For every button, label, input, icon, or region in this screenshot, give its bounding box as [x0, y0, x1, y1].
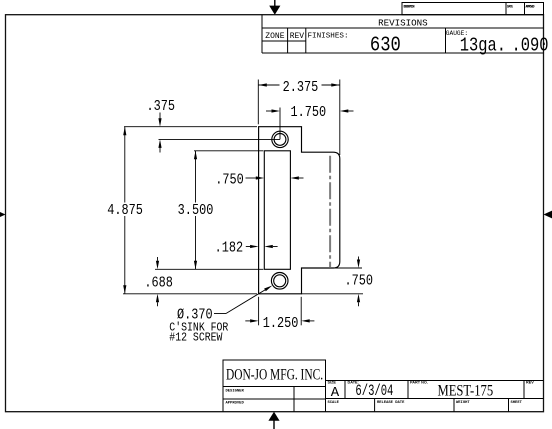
title block: designer/approved rows — [223, 387, 326, 412]
svg-text:.182: .182 — [215, 239, 244, 255]
centering mark right — [544, 210, 552, 218]
centering mark bottom — [268, 412, 279, 429]
hole callout leader — [214, 290, 266, 314]
dimension 1.750 — [266, 108, 354, 140]
part outline — [259, 127, 340, 294]
date cell — [348, 380, 394, 399]
part no cell — [410, 380, 493, 399]
dimension 4.875 — [123, 127, 257, 294]
svg-text:MEST-175: MEST-175 — [437, 382, 493, 400]
dimension 2.375 — [258, 80, 340, 156]
svg-text:630: 630 — [370, 33, 401, 57]
svg-text:4.875: 4.875 — [107, 202, 143, 218]
finishes cell — [308, 33, 401, 57]
revision header strip labels — [404, 5, 535, 9]
dimension .182 — [246, 246, 278, 248]
svg-text:1.750: 1.750 — [290, 104, 326, 120]
title block: company box — [223, 360, 326, 387]
svg-text:APPROVED: APPROVED — [226, 401, 245, 405]
svg-text:ZONE: ZONE — [265, 32, 284, 41]
svg-text:PART NO.: PART NO. — [410, 380, 428, 384]
svg-text:DON-JO MFG. INC.: DON-JO MFG. INC. — [226, 367, 323, 384]
svg-text:REV: REV — [526, 380, 534, 384]
svg-text:DESCRIPTION: DESCRIPTION — [404, 5, 415, 9]
svg-text:WEIGHT: WEIGHT — [456, 401, 470, 405]
svg-text:1.250: 1.250 — [263, 315, 299, 331]
revision header strip above border — [402, 3, 544, 15]
svg-text:DESIGNER: DESIGNER — [226, 389, 245, 393]
size cell — [328, 380, 340, 401]
svg-text:.750: .750 — [345, 272, 374, 288]
screw hole bottom — [271, 273, 288, 290]
title block: main rows — [326, 381, 544, 412]
svg-text:.750: .750 — [215, 171, 244, 187]
svg-text:FINISHES:: FINISHES: — [308, 33, 349, 41]
svg-text:REVISIONS: REVISIONS — [378, 17, 428, 28]
revisions table — [262, 15, 544, 53]
centering mark top — [269, 0, 280, 15]
svg-text:#12 SCREW: #12 SCREW — [169, 332, 222, 345]
svg-text:2.375: 2.375 — [283, 79, 319, 95]
scale / release date / weight / sheet labels — [328, 401, 523, 405]
svg-text:.375: .375 — [147, 98, 176, 114]
svg-text:.688: .688 — [144, 274, 173, 290]
svg-text:.090: .090 — [512, 35, 549, 57]
screw hole top — [272, 131, 288, 147]
dimension .688 — [157, 257, 159, 306]
dimension .750 lip height — [302, 257, 364, 307]
svg-text:DATE: DATE — [507, 5, 513, 9]
svg-text:SCALE: SCALE — [328, 401, 340, 405]
dimension 3.500 — [155, 151, 263, 269]
centering mark left — [0, 210, 6, 218]
latch cutout — [264, 151, 290, 269]
dimension .375 — [124, 113, 280, 153]
dimension 1.250 — [245, 297, 314, 326]
svg-text:APPROVED: APPROVED — [526, 5, 535, 9]
svg-text:3.500: 3.500 — [178, 202, 214, 218]
hole callout text — [169, 307, 228, 345]
svg-text:6/3/04: 6/3/04 — [355, 382, 393, 400]
svg-text:RELEASE DATE: RELEASE DATE — [377, 401, 405, 405]
bend centerline — [329, 156, 331, 267]
svg-text:SIZE: SIZE — [328, 380, 337, 384]
gauge cell — [446, 30, 549, 57]
svg-text:13ga.: 13ga. — [460, 35, 506, 57]
dimension .750 cutout width — [246, 177, 304, 179]
svg-text:Ø.370: Ø.370 — [177, 307, 213, 323]
svg-text:REV: REV — [290, 32, 305, 41]
svg-text:A: A — [331, 385, 340, 401]
svg-text:SHEET: SHEET — [511, 401, 523, 405]
